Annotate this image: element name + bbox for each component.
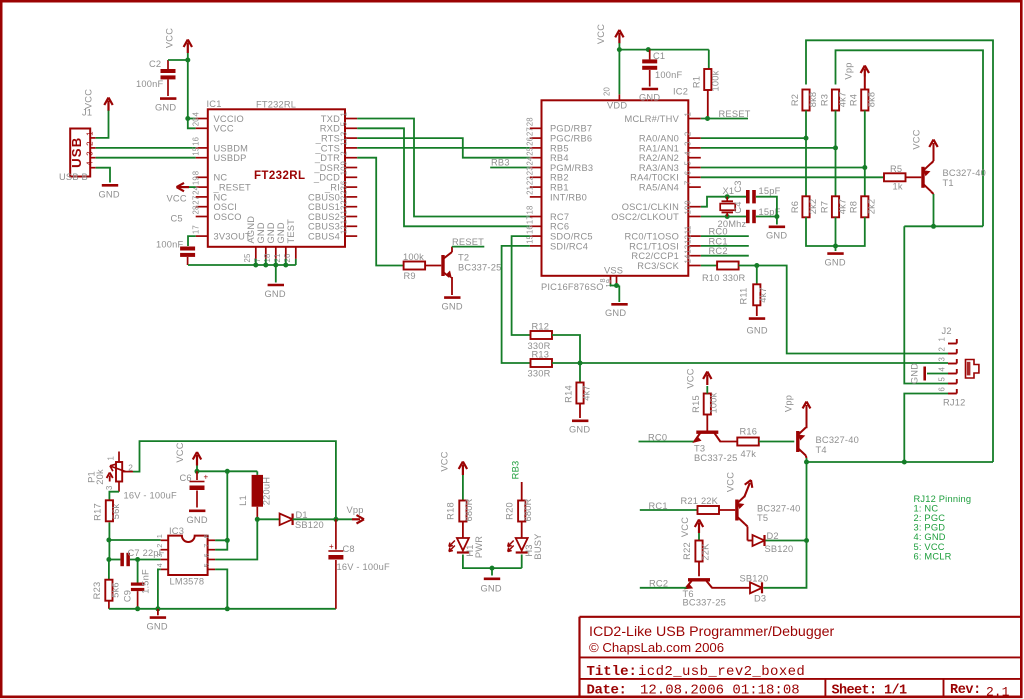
J2 pin 6 (948, 393, 957, 395)
wire (759, 441, 795, 443)
svg-text:RA4/T0CKI: RA4/T0CKI (630, 173, 679, 183)
svg-text:14: 14 (340, 215, 349, 225)
svg-text:C3: C3 (733, 180, 743, 192)
wire switched VCC line (904, 225, 983, 227)
svg-text:icd2_usb_rev2_boxed: icd2_usb_rev2_boxed (638, 664, 805, 680)
svg-text:ICD2-Like USB Programmer/Debug: ICD2-Like USB Programmer/Debugger (589, 624, 834, 640)
IC1 pin 22 CBUS1 (345, 206, 357, 208)
wire (96, 168, 110, 183)
IC1 pin 4 VCCIO (196, 118, 208, 120)
svg-text:AGND: AGND (246, 216, 256, 244)
transistor T1 BC327-40 (921, 167, 924, 188)
svg-text:15pF: 15pF (759, 186, 781, 196)
svg-text:R13: R13 (532, 350, 550, 360)
svg-text:7: 7 (253, 258, 262, 263)
junction (902, 460, 907, 465)
svg-text:_DSR: _DSR (313, 163, 340, 173)
IC3 pin 1 (161, 539, 169, 541)
svg-text:GND: GND (825, 258, 846, 268)
svg-text:Rev:: Rev: (950, 683, 981, 698)
svg-text:1: NC: 1: NC (914, 504, 939, 514)
svg-text:RXD: RXD (320, 124, 340, 134)
svg-text:VCC: VCC (165, 28, 175, 48)
svg-text:GND: GND (766, 231, 787, 241)
svg-text:VCC: VCC (440, 451, 450, 471)
svg-text:7: 7 (202, 543, 211, 547)
junction (135, 557, 140, 562)
resistor R4 8k8 (861, 90, 868, 111)
svg-text:OSC1/CLKIN: OSC1/CLKIN (622, 202, 679, 212)
wire (189, 186, 196, 188)
J2 pin 4 (948, 373, 957, 375)
wire (96, 157, 196, 159)
IC2 pin 13 RC2/CCP1 (688, 255, 701, 257)
svg-text:BC327-40: BC327-40 (816, 435, 859, 445)
svg-text:RA1/AN1: RA1/AN1 (639, 143, 679, 153)
svg-text:7: 7 (683, 181, 692, 186)
svg-text:RB2: RB2 (550, 173, 569, 183)
IC1 pin 21 GND (285, 247, 287, 259)
J2 pin 3 (948, 363, 957, 365)
svg-text:Vpp: Vpp (784, 395, 794, 412)
svg-text:12: 12 (340, 225, 349, 234)
capacitor C4 15pF (746, 210, 750, 223)
svg-text:4k7: 4k7 (758, 287, 768, 303)
svg-text:Vpp: Vpp (844, 62, 854, 79)
junction (725, 214, 730, 219)
IC1 pin 15 USBDP (196, 157, 208, 159)
svg-text:CBUS3: CBUS3 (308, 222, 340, 232)
junction (195, 469, 200, 474)
svg-text:R17: R17 (93, 503, 103, 521)
wire RXD to RC6 (357, 128, 530, 226)
wire RA1 (701, 147, 836, 149)
capacitor C1 100nF (649, 50, 651, 60)
svg-text:8: 8 (192, 171, 201, 176)
svg-text:GND: GND (266, 222, 276, 243)
svg-text:RA0/AN0: RA0/AN0 (639, 134, 679, 144)
svg-text:330R: 330R (528, 369, 551, 379)
svg-text:8: 8 (202, 534, 211, 538)
svg-text:4k7: 4k7 (838, 199, 848, 215)
IC1 pin 28 OSCO (196, 216, 208, 218)
IC2 pin 21 INT/RB0 (530, 196, 542, 198)
IC2 pin 6 RA4/T0CKI (688, 176, 701, 178)
Vpp symbol above R4 (864, 77, 866, 90)
svg-text:4: 4 (937, 367, 946, 372)
wire RA0 (701, 137, 806, 139)
J2 pin 5 (948, 383, 957, 385)
wire (766, 540, 807, 542)
resistor R18 680R (462, 475, 464, 501)
VCC symbol above R15 (706, 386, 708, 394)
potentiometer P1 20k (118, 452, 120, 463)
svg-text:VSS: VSS (604, 266, 623, 276)
svg-text:_RESET: _RESET (213, 183, 251, 193)
svg-text:GND: GND (256, 222, 266, 243)
svg-text:CBUS1: CBUS1 (308, 202, 340, 212)
IC2 pin 18 RC7 (530, 216, 542, 218)
svg-text:16: 16 (525, 225, 534, 234)
svg-text:USB B: USB B (59, 172, 88, 182)
resistor R8 2k2 (861, 196, 868, 217)
svg-text:20k: 20k (95, 469, 105, 485)
wire J2 pin6 to Vpp net (904, 394, 948, 463)
svg-text:Vpp: Vpp (347, 505, 364, 515)
junction (646, 47, 651, 52)
svg-text:1.5nF: 1.5nF (141, 569, 151, 594)
svg-text:22: 22 (525, 176, 534, 185)
svg-text:GND: GND (639, 93, 660, 103)
svg-text:2: 2 (85, 141, 94, 146)
svg-text:100nF: 100nF (655, 70, 682, 80)
svg-text:47k: 47k (741, 449, 757, 459)
IC2 pin 23 RB2 (530, 176, 542, 178)
svg-text:3: 3 (105, 485, 114, 490)
svg-text:SB120: SB120 (765, 544, 794, 554)
svg-text:D2: D2 (767, 531, 779, 541)
IC3 pin 7 (208, 549, 216, 551)
wire (463, 555, 522, 569)
svg-text:28: 28 (525, 117, 534, 126)
wire (168, 59, 188, 61)
svg-text:18: 18 (263, 253, 272, 262)
IC1 pin 3 _RTS (345, 137, 357, 139)
IC2 pin 22 RB1 (530, 186, 542, 188)
svg-text:4: 4 (192, 112, 201, 117)
resistor R11 4k7 (756, 266, 758, 285)
wire (739, 266, 948, 354)
resistor R15 100k (706, 413, 708, 431)
resistor R21 22K (698, 506, 720, 514)
svg-text:5: 5 (683, 161, 692, 166)
svg-text:RJ12: RJ12 (943, 398, 966, 408)
junction (185, 58, 190, 63)
svg-text:4k7: 4k7 (582, 385, 592, 401)
IC2 pin 20 VDD (618, 94, 620, 100)
wire (188, 53, 196, 128)
svg-text:1: 1 (85, 131, 94, 136)
svg-text:R2: R2 (790, 94, 800, 106)
svg-text:4: GND: 4: GND (914, 532, 946, 542)
IC2 pin 9 OSC1/CLKIN (688, 206, 701, 208)
svg-text:16V - 100uF: 16V - 100uF (337, 562, 390, 572)
svg-text:2: 2 (340, 151, 349, 156)
wire T1 collector (931, 192, 934, 195)
capacitor C2 (167, 60, 169, 69)
svg-text:27: 27 (525, 127, 534, 136)
IC1 pin 24 NC (196, 196, 208, 198)
IC1 pin 17 3V3OUT (196, 235, 208, 237)
wire IC3 pin8 pin7 to VCC (215, 471, 227, 540)
ground at J2 pin4 (927, 373, 948, 375)
LED H1 PWR (462, 522, 464, 539)
IC1 pin 11 _CTS (345, 147, 357, 149)
svg-text:R18: R18 (446, 502, 456, 520)
svg-text:CBUS4: CBUS4 (308, 232, 340, 242)
svg-text:680R: 680R (523, 498, 533, 521)
junction (490, 566, 495, 571)
svg-text:T5: T5 (757, 513, 768, 523)
svg-text:RC2: RC2 (709, 246, 728, 256)
svg-text:RESET: RESET (452, 237, 484, 247)
svg-text:680R: 680R (464, 498, 474, 521)
svg-text:3: 3 (155, 553, 164, 557)
junction (333, 517, 338, 522)
IC2 pin 12 RC1/T1OSI (688, 245, 701, 247)
svg-text:BUSY: BUSY (533, 533, 543, 559)
node RC1 (701, 245, 749, 247)
wire (96, 111, 109, 138)
svg-text:CBUS2: CBUS2 (308, 212, 340, 222)
IC2 pin 15 SDI/RC4 (530, 245, 542, 247)
svg-text:+: + (204, 473, 209, 482)
IC1 pin 2 _DTR (345, 157, 357, 159)
svg-text:100k: 100k (403, 252, 424, 262)
svg-text:R21 22K: R21 22K (681, 496, 719, 506)
junction (225, 606, 230, 611)
svg-text:100nF: 100nF (136, 79, 163, 89)
IC3 pin 4 (161, 568, 169, 570)
resistor R9 100k (404, 262, 426, 270)
junction (833, 145, 838, 150)
svg-text:2: 2 (155, 543, 164, 547)
svg-text:USBDP: USBDP (214, 153, 247, 163)
wire (188, 118, 196, 120)
IC1 pin 14 CBUS3 (345, 225, 357, 227)
svg-text:56k: 56k (111, 504, 121, 520)
transistor T4 BC327-40 (796, 431, 799, 452)
svg-text:Sheet: 1/1: Sheet: 1/1 (832, 684, 908, 699)
capacitor C9 1.5nF (137, 560, 139, 583)
IC3 pin 5 (208, 568, 216, 570)
svg-text:BC327-40: BC327-40 (943, 168, 986, 178)
svg-text:VCC: VCC (680, 517, 690, 537)
node RC1 (640, 509, 698, 511)
svg-text:GND: GND (187, 515, 208, 525)
node RC0 (639, 441, 695, 443)
VCC symbol at J1 (107, 101, 109, 112)
svg-text:10: 10 (683, 205, 692, 215)
J2 pin 2 (948, 353, 957, 355)
svg-text:BC327-40: BC327-40 (757, 504, 800, 514)
IC2 pin 16 SDO/RC5 (530, 235, 542, 237)
ground at C1 (642, 88, 658, 91)
svg-text:R11: R11 (738, 288, 748, 305)
svg-text:NC: NC (214, 173, 228, 183)
capacitor C5 (180, 247, 195, 251)
svg-text:OSC2/CLKOUT: OSC2/CLKOUT (611, 212, 679, 222)
svg-text:IC1: IC1 (207, 99, 222, 109)
svg-text:21: 21 (273, 253, 282, 262)
IC1 pin 16 USBDM (196, 147, 208, 149)
svg-text:GND: GND (747, 326, 768, 336)
svg-text:R1: R1 (692, 76, 702, 88)
IC2 pin 4 RA2/AN2 (688, 157, 701, 159)
svg-text:R14: R14 (564, 385, 574, 403)
svg-text:BC337-25: BC337-25 (458, 263, 501, 273)
svg-text:1: 1 (155, 534, 164, 538)
junction (255, 517, 260, 522)
svg-text:2k2: 2k2 (808, 199, 818, 215)
VCC symbol above C2 (187, 43, 189, 54)
svg-text:3: 3 (85, 151, 94, 156)
resistor R7 4k7 (832, 196, 839, 217)
wire divider gnd rail (806, 217, 865, 246)
svg-text:5k6: 5k6 (111, 582, 121, 598)
svg-text:RC7: RC7 (550, 212, 569, 222)
IC2 pin 14 RC3/SCK (688, 265, 701, 267)
svg-text:GND: GND (155, 103, 176, 113)
resistor R20 680R (518, 501, 525, 522)
svg-text:VCC: VCC (214, 124, 234, 134)
IC1 pin 19 _RESET (196, 186, 208, 188)
resistor R3 4k7 (832, 90, 839, 111)
svg-text:6: 6 (202, 553, 211, 557)
svg-text:L1: L1 (238, 495, 248, 506)
resistor R6 2k2 (802, 196, 809, 217)
resistor R13 330R (531, 359, 553, 367)
svg-text:PGC/RB6: PGC/RB6 (550, 134, 592, 144)
IC1 pin 9 _DSR (345, 167, 357, 169)
resistor R1 100k (708, 50, 710, 69)
svg-text:2: 2 (128, 463, 133, 473)
svg-text:J2: J2 (942, 326, 952, 336)
svg-text:GND: GND (99, 190, 120, 200)
svg-text:13: 13 (340, 205, 349, 214)
transistor T2 BC337-25 (441, 255, 444, 276)
svg-text:2k2: 2k2 (867, 199, 877, 215)
svg-text:_RTS: _RTS (315, 134, 340, 144)
svg-text:OSCO: OSCO (214, 212, 242, 222)
ground at T2 (451, 277, 453, 295)
junction (135, 606, 140, 611)
wire (521, 555, 523, 569)
svg-text:R22: R22 (682, 542, 692, 560)
wire to IC3 pin1 (109, 539, 161, 541)
junction (774, 214, 779, 219)
node RC2 (640, 587, 687, 589)
IC2 pin 1 MCLR#/THV (688, 118, 701, 120)
svg-text:16V - 100uF: 16V - 100uF (124, 491, 177, 501)
svg-text:R20: R20 (505, 502, 515, 520)
IC2 pin 17 RC6 (530, 225, 542, 227)
wire RA4 to R5 (701, 176, 884, 178)
transistor T5 BC327-40 (735, 500, 738, 521)
IC1 pin 12 CBUS4 (345, 235, 357, 237)
svg-text:VCC: VCC (167, 194, 187, 204)
svg-text:C2: C2 (149, 59, 161, 69)
svg-text:4: 4 (155, 563, 164, 567)
svg-text:RC3/SCK: RC3/SCK (637, 261, 679, 271)
svg-text:_DTR: _DTR (314, 153, 340, 163)
wire OSC2 (701, 216, 746, 218)
resistor R23 5k6 (108, 560, 110, 580)
title block (580, 616, 1022, 618)
svg-text:RC1/T1OSI: RC1/T1OSI (629, 241, 679, 251)
wire (805, 111, 807, 197)
svg-text:19: 19 (192, 176, 201, 185)
svg-text:6: 6 (340, 181, 349, 186)
resistor R12 330R (531, 331, 553, 339)
wire (756, 216, 777, 218)
capacitor C3 15pF (746, 190, 750, 203)
svg-text:C6: C6 (180, 473, 192, 483)
wire T5 collector to D2 (745, 524, 748, 527)
svg-text:C8: C8 (343, 544, 355, 554)
node RC0 (701, 235, 749, 237)
svg-text:RC0: RC0 (709, 227, 728, 237)
wire VCC rail (197, 466, 257, 472)
svg-text:17: 17 (525, 215, 534, 224)
wire (108, 522, 110, 559)
svg-text:R5: R5 (890, 164, 902, 174)
svg-text:100k: 100k (711, 70, 721, 91)
ground at LEDs (491, 568, 493, 575)
wire (619, 49, 708, 51)
svg-text:RC1: RC1 (709, 236, 728, 246)
svg-text:R8: R8 (849, 201, 859, 213)
IC2 pin 25 RB4 (530, 157, 542, 159)
ground at C2 (160, 97, 176, 100)
svg-text:© ChapsLab.com 2006: © ChapsLab.com 2006 (589, 640, 724, 655)
svg-text:VCCIO: VCCIO (214, 114, 244, 124)
svg-text:RJ12 Pinning: RJ12 Pinning (914, 494, 972, 504)
svg-text:1k: 1k (893, 182, 903, 192)
svg-text:RB3: RB3 (511, 461, 521, 480)
svg-text:NC: NC (214, 192, 228, 202)
IC2 pin 28 PGD/RB7 (530, 127, 542, 129)
svg-text:16: 16 (192, 137, 201, 146)
svg-text:Date:: Date: (587, 683, 627, 699)
svg-text:VCC: VCC (912, 129, 922, 149)
IC3 pin 2 (161, 549, 169, 551)
svg-text:23: 23 (340, 186, 349, 195)
node RB3 (490, 167, 530, 169)
svg-text:1: 1 (683, 112, 692, 117)
svg-text:PIC16F876SO: PIC16F876SO (541, 282, 604, 292)
svg-text:6: MCLR: 6: MCLR (914, 551, 952, 561)
junction (804, 538, 809, 543)
svg-text:12: 12 (683, 235, 692, 244)
svg-text:R15: R15 (691, 395, 701, 413)
VCC symbol at T5 (744, 480, 752, 497)
svg-text:R6: R6 (790, 201, 800, 213)
wire (806, 462, 808, 541)
wire OSC1 (701, 197, 746, 207)
node RESET at MCLR (701, 118, 748, 120)
ground at J1 (102, 184, 118, 187)
wire R2 top loop (806, 40, 993, 462)
svg-text:GND: GND (276, 222, 286, 243)
junction (833, 244, 838, 249)
IC2 pin 3 RA1/AN1 (688, 147, 701, 149)
svg-text:LM3578: LM3578 (170, 577, 205, 587)
IC1 pin 7 GND (265, 247, 267, 259)
svg-text:21: 21 (525, 186, 534, 195)
svg-text:R16: R16 (740, 427, 758, 437)
resistor R5 1k (884, 173, 906, 181)
junction (106, 557, 111, 562)
svg-text:4: 4 (683, 151, 692, 156)
LED H3 BUSY (521, 522, 523, 539)
svg-text:3: 3 (937, 357, 946, 362)
svg-text:USB: USB (69, 136, 84, 167)
wire RTS to RB4 (357, 138, 530, 158)
svg-text:C1: C1 (653, 51, 665, 61)
diode D3 SB120 (712, 587, 751, 589)
wire T4 collector / Vpp net (805, 456, 808, 459)
